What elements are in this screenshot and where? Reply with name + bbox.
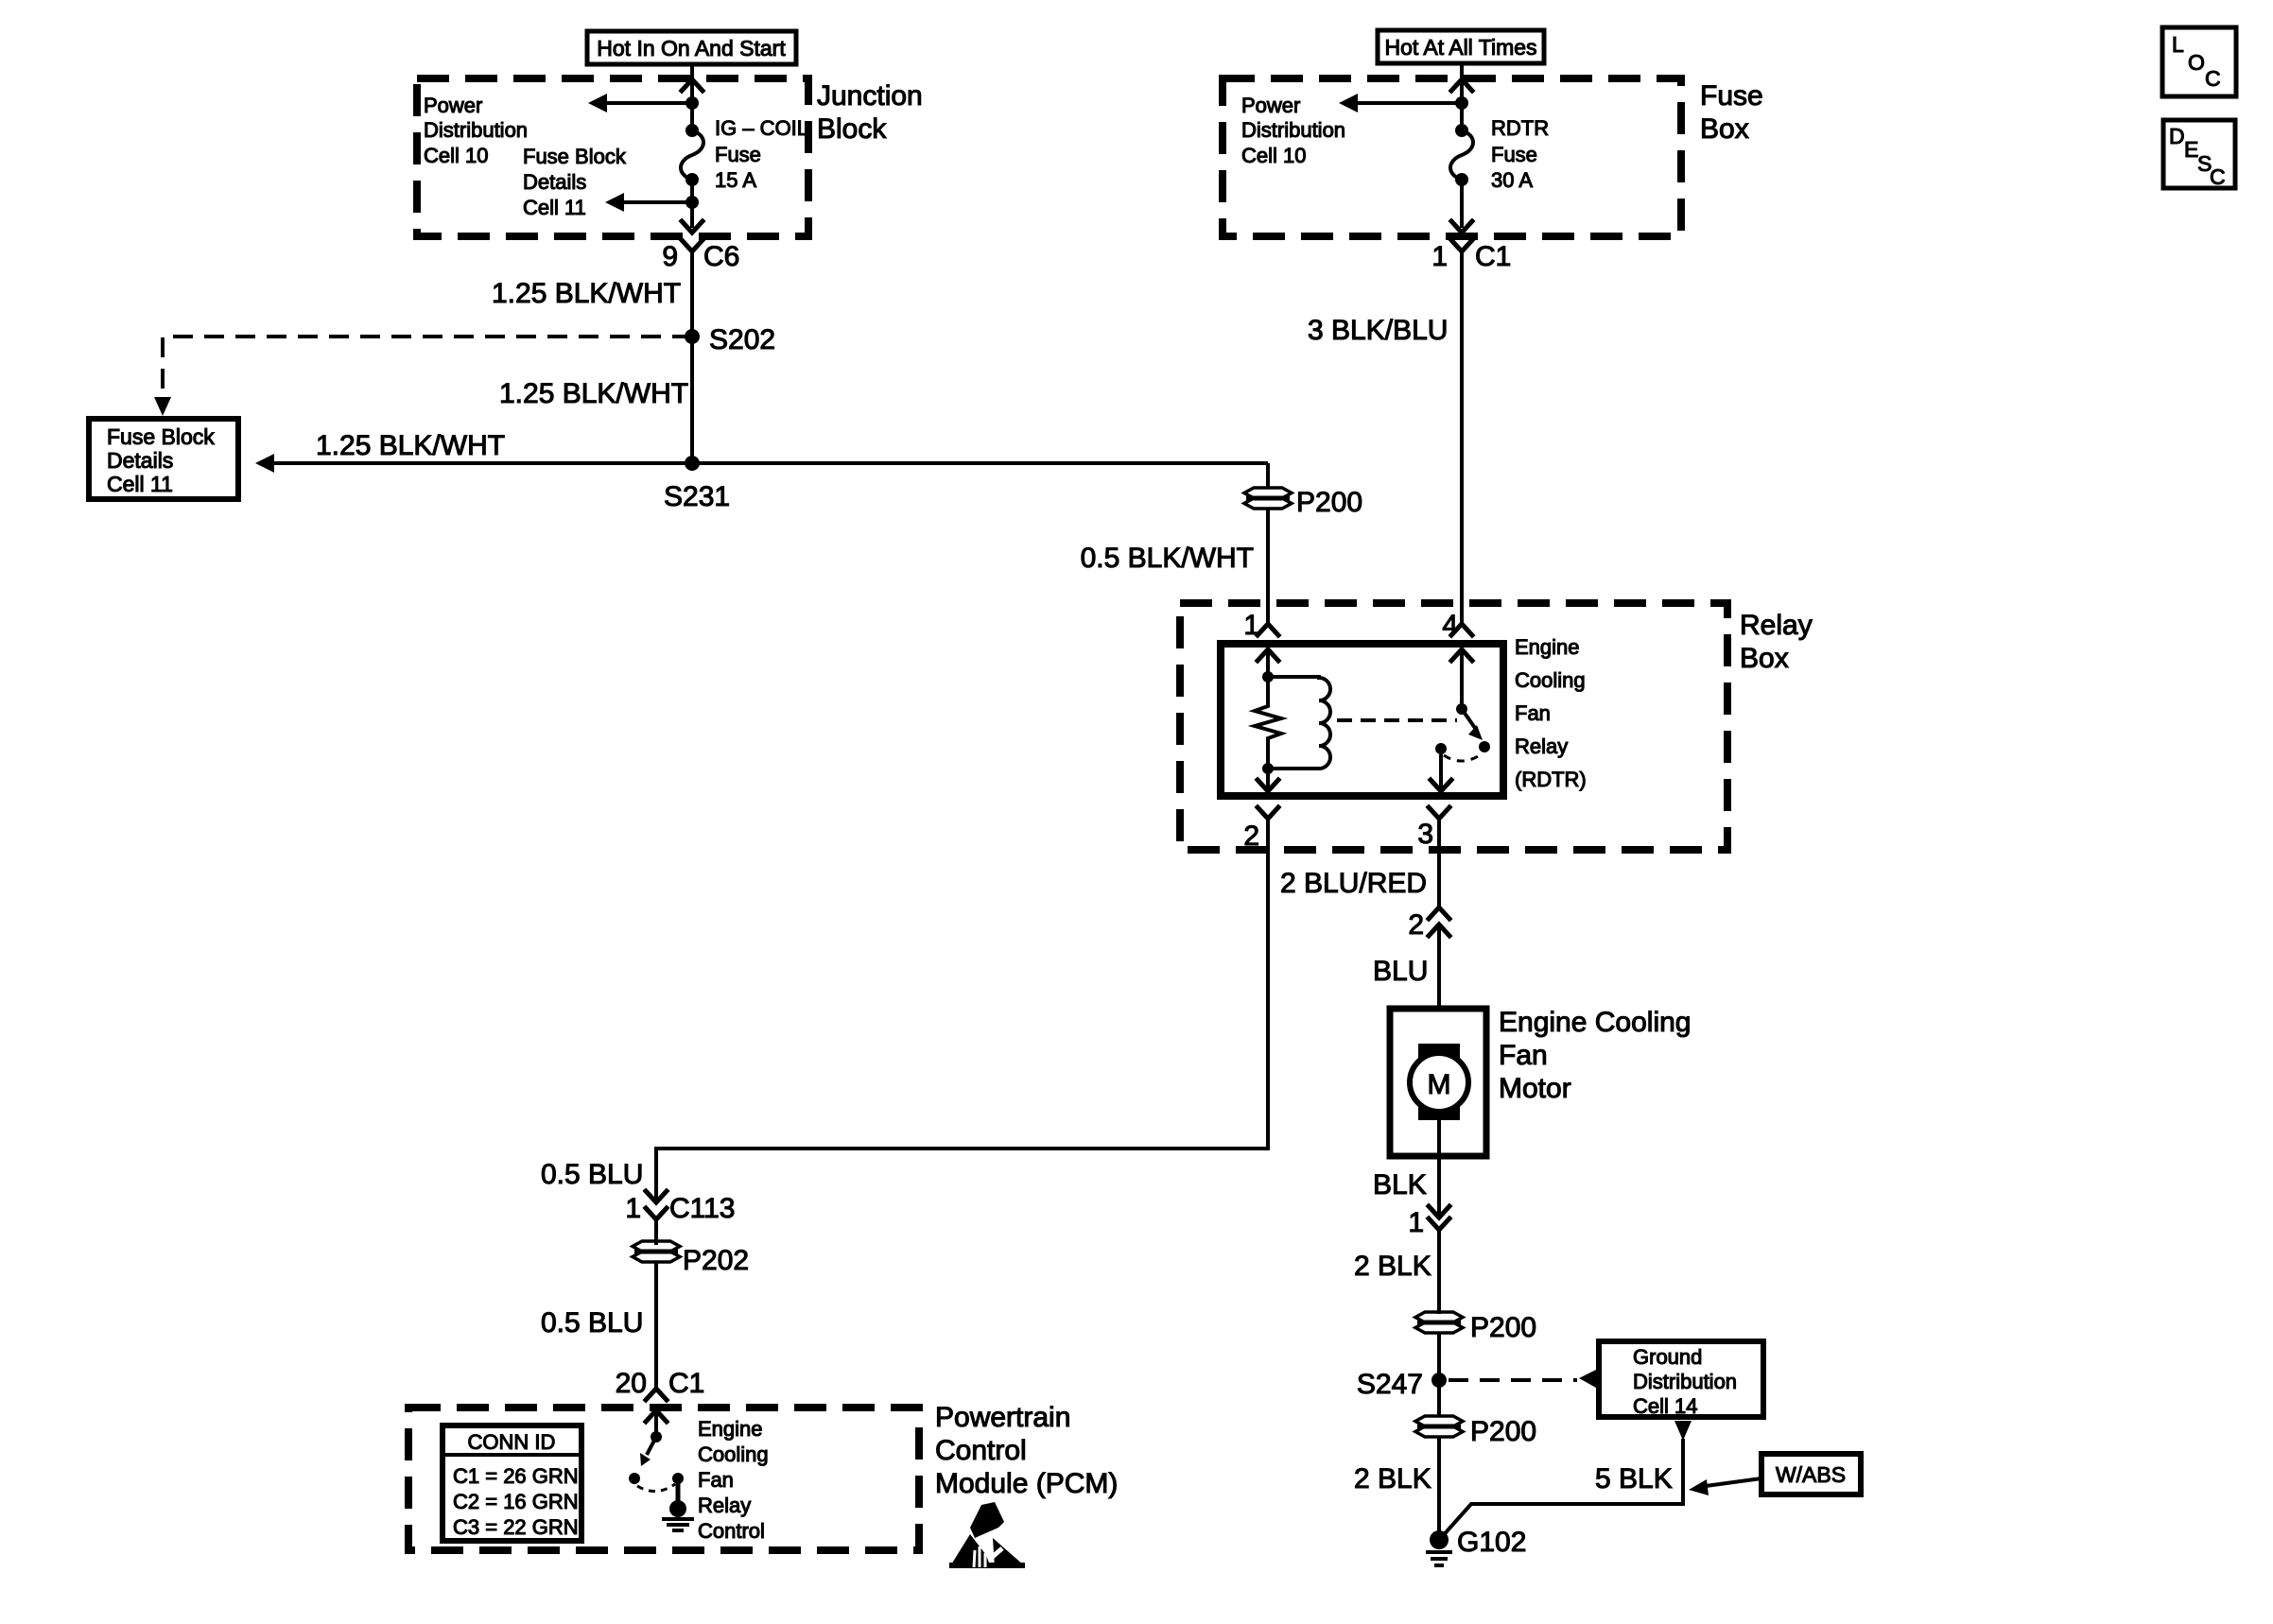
svg-text:C2 = 16 GRN: C2 = 16 GRN	[453, 1490, 579, 1513]
svg-text:Box: Box	[1740, 643, 1789, 674]
svg-text:Cooling: Cooling	[698, 1443, 769, 1466]
svg-text:Cell 14: Cell 14	[1633, 1394, 1697, 1418]
engine cooling fan motor	[1390, 1009, 1486, 1156]
label Power Distribution Cell 10 (junction)	[424, 94, 528, 167]
wire C113 to P202	[654, 1219, 658, 1245]
svg-text:C6: C6	[703, 241, 739, 272]
svg-text:Fuse: Fuse	[1491, 143, 1537, 166]
svg-text:Hot In On And Start: Hot In On And Start	[597, 36, 786, 60]
svg-text:BLK: BLK	[1373, 1169, 1427, 1201]
svg-text:C: C	[2205, 66, 2221, 91]
svg-text:Relay: Relay	[698, 1494, 751, 1517]
label IG-COIL Fuse 15 A	[715, 116, 808, 192]
svg-text:0.5 BLU: 0.5 BLU	[541, 1159, 643, 1190]
svg-text:Cell 11: Cell 11	[107, 472, 173, 496]
svg-text:C: C	[2210, 164, 2226, 189]
wire arrow to Power Distribution	[605, 101, 692, 105]
switch thrown contact	[1479, 741, 1490, 752]
LOC box	[2162, 27, 2236, 96]
svg-text:C1 = 26 GRN: C1 = 26 GRN	[453, 1464, 579, 1488]
svg-text:(RDTR): (RDTR)	[1515, 768, 1587, 791]
CONN ID table	[442, 1425, 581, 1541]
wire P200 to relay pin 1	[1266, 508, 1270, 624]
svg-text:2: 2	[1243, 821, 1259, 852]
svg-text:Fuse Block: Fuse Block	[523, 145, 627, 168]
svg-text:9: 9	[662, 241, 678, 272]
svg-text:Block: Block	[817, 113, 887, 145]
wire contact to pin 3 arrow down	[1439, 754, 1443, 791]
svg-text:Details: Details	[107, 448, 173, 473]
dashed wire S247 to Ground Distribution	[1449, 1378, 1577, 1382]
PCM dashed box	[408, 1408, 919, 1550]
wire to P200 lower	[1437, 1230, 1441, 1314]
svg-text:Distribution: Distribution	[1633, 1370, 1737, 1393]
node junction dot 2	[685, 196, 699, 209]
ESD symbol	[949, 1502, 1025, 1568]
svg-text:Engine: Engine	[1515, 635, 1580, 659]
dashed wire S202 to Fuse Block Details	[163, 337, 692, 401]
svg-text:Cell 10: Cell 10	[424, 144, 488, 167]
svg-text:2 BLU/RED: 2 BLU/RED	[1280, 868, 1427, 899]
svg-text:Fuse Block: Fuse Block	[107, 424, 215, 449]
svg-text:Box: Box	[1700, 113, 1749, 145]
wire fuse to exit	[690, 180, 694, 228]
svg-text:M: M	[1428, 1069, 1451, 1100]
engine cooling fan relay outline	[1221, 644, 1503, 796]
PCM internal ground	[662, 1478, 694, 1530]
svg-text:3: 3	[1417, 819, 1433, 850]
svg-text:2 BLK: 2 BLK	[1354, 1251, 1431, 1282]
wire down to P200	[1266, 463, 1270, 488]
pin 2 fork	[1258, 807, 1278, 819]
DESC box	[2163, 120, 2235, 189]
svg-text:P200: P200	[1470, 1416, 1536, 1447]
switch pivot	[1456, 703, 1467, 715]
wire coil to pin 2 arrow down	[1266, 769, 1270, 791]
svg-text:C1: C1	[1475, 241, 1511, 272]
svg-text:Engine: Engine	[698, 1417, 763, 1441]
svg-text:1: 1	[625, 1193, 641, 1224]
wire junction feed	[690, 64, 694, 130]
svg-text:RDTR: RDTR	[1491, 116, 1549, 140]
label RDTR Fuse 30 A	[1491, 116, 1549, 192]
svg-text:3 BLK/BLU: 3 BLK/BLU	[1308, 315, 1448, 346]
svg-text:1.25 BLK/WHT: 1.25 BLK/WHT	[499, 378, 688, 409]
label Engine Cooling Fan Relay (RDTR)	[1515, 635, 1587, 791]
svg-text:P200: P200	[1470, 1312, 1536, 1343]
node Hot At All Times	[1378, 30, 1544, 63]
label Powertrain Control Module (PCM)	[935, 1402, 1118, 1499]
arrow down exit fuse box	[1451, 221, 1472, 233]
svg-text:Relay: Relay	[1740, 610, 1813, 641]
svg-text:Cell 11: Cell 11	[523, 196, 586, 219]
node G102 ground	[1426, 1527, 1526, 1565]
label Fuse Block Details Cell 11 (junction)	[523, 145, 627, 219]
arrow down from Ground Distribution	[1674, 1421, 1692, 1441]
arrow down exit junction block	[682, 221, 703, 233]
PCM switch blade	[647, 1437, 656, 1455]
switch feed arrow up (pin 4)	[1451, 649, 1472, 661]
svg-text:Power: Power	[424, 94, 482, 117]
wire motor to connector 1	[1437, 1119, 1441, 1218]
switch stationary contact	[1435, 743, 1447, 754]
pin 3 fork	[1429, 807, 1449, 819]
svg-text:2 BLK: 2 BLK	[1354, 1463, 1431, 1494]
svg-text:Relay: Relay	[1515, 734, 1568, 758]
wire P200 to S247	[1437, 1332, 1441, 1416]
svg-text:Control: Control	[935, 1435, 1027, 1466]
wire relay pin 3 down	[1437, 819, 1441, 907]
wire C1 to relay pin 4	[1460, 251, 1464, 624]
node Ground Distribution Cell 14 box	[1599, 1341, 1763, 1418]
label Fuse Box	[1700, 80, 1763, 145]
connector P200 (upper)	[1244, 487, 1362, 518]
node junction dot	[685, 96, 699, 110]
svg-text:Fan: Fan	[1499, 1040, 1548, 1071]
pin 1 fork	[1258, 624, 1278, 635]
node S202	[685, 329, 700, 344]
connector C113	[625, 1191, 735, 1224]
svg-text:Cell 10: Cell 10	[1241, 144, 1306, 167]
svg-text:0.5 BLU: 0.5 BLU	[541, 1307, 643, 1339]
svg-text:W/ABS: W/ABS	[1776, 1462, 1846, 1487]
arrow up into Hot At All Times	[1451, 79, 1472, 91]
connector C1 pin 20 fork	[646, 1389, 667, 1400]
inline connector 1 (arrow down + fork up)	[1408, 1206, 1449, 1238]
svg-text:G102: G102	[1457, 1527, 1526, 1558]
svg-text:Cooling: Cooling	[1515, 668, 1586, 692]
pin 4 fork	[1451, 624, 1472, 635]
svg-text:P200: P200	[1296, 487, 1362, 518]
fuse RDTR 30A	[1450, 124, 1473, 186]
label Power Distribution Cell 10 (fuse box)	[1241, 94, 1345, 167]
arrow up into Hot In On And Start	[682, 79, 703, 91]
svg-text:Distribution: Distribution	[424, 118, 528, 142]
dashed actuation link	[1337, 718, 1457, 722]
svg-text:1: 1	[1431, 241, 1448, 272]
svg-text:Engine Cooling: Engine Cooling	[1499, 1007, 1691, 1038]
connector C1 pin 1 fork	[1451, 240, 1472, 251]
wire fuse box feed	[1460, 64, 1464, 130]
svg-text:0.5 BLK/WHT: 0.5 BLK/WHT	[1081, 543, 1254, 574]
connector P200 (lower)	[1415, 1416, 1536, 1447]
svg-text:S247: S247	[1357, 1369, 1423, 1400]
node Hot In On And Start	[587, 31, 796, 64]
svg-text:C113: C113	[669, 1193, 736, 1224]
svg-text:Motor: Motor	[1499, 1073, 1571, 1104]
svg-text:Fan: Fan	[698, 1468, 734, 1492]
node Fuse Block Details Cell 11 box	[89, 419, 238, 499]
svg-text:1.25 BLK/WHT: 1.25 BLK/WHT	[492, 278, 681, 309]
fuse box dashed box	[1223, 78, 1681, 236]
svg-text:Ground: Ground	[1633, 1345, 1702, 1369]
inline connector 2 (fork down + arrow up)	[1408, 907, 1449, 941]
junction block dashed box	[417, 78, 808, 236]
svg-text:D: D	[2169, 124, 2185, 148]
node S231	[685, 456, 700, 471]
svg-text:Fuse: Fuse	[715, 143, 761, 166]
label Engine Cooling Fan Motor	[1499, 1007, 1691, 1104]
wire arrow to Power Distribution (fuse box)	[1356, 101, 1462, 105]
coil (relay)	[1268, 677, 1330, 769]
svg-text:IG – COIL: IG – COIL	[715, 116, 808, 140]
svg-text:1.25 BLK/WHT: 1.25 BLK/WHT	[316, 430, 505, 461]
svg-text:O: O	[2188, 50, 2205, 75]
svg-text:C1: C1	[668, 1368, 704, 1399]
svg-text:Power: Power	[1241, 94, 1300, 117]
fuse IG-COIL 15A	[681, 124, 703, 186]
wire relay pin 2 to PCM corner	[656, 819, 1268, 1202]
svg-text:P202: P202	[683, 1245, 749, 1276]
svg-text:Hot At All Times: Hot At All Times	[1384, 35, 1536, 60]
svg-text:30 A: 30 A	[1491, 168, 1533, 192]
svg-text:15 A: 15 A	[715, 168, 756, 192]
wire S247 branch to G102	[1437, 1436, 1441, 1540]
wire 5 BLK	[1440, 1439, 1683, 1539]
resistor (relay)	[1255, 677, 1281, 769]
label Relay Box	[1740, 610, 1813, 674]
svg-text:Fuse: Fuse	[1700, 80, 1763, 112]
node S247	[1431, 1373, 1447, 1388]
relay box dashed box	[1180, 603, 1727, 850]
svg-text:C3 = 22 GRN: C3 = 22 GRN	[453, 1515, 579, 1539]
PCM internal switch arrow up	[646, 1410, 667, 1422]
wire arrow to Fuse Block Details Cell 11	[622, 200, 692, 204]
svg-text:1: 1	[1243, 610, 1259, 641]
svg-text:2: 2	[1408, 909, 1424, 941]
svg-text:BLU: BLU	[1373, 956, 1428, 987]
label Engine Cooling Fan Relay Control	[698, 1417, 769, 1543]
svg-text:5 BLK: 5 BLK	[1595, 1463, 1673, 1494]
svg-text:Junction: Junction	[817, 80, 923, 112]
svg-text:S202: S202	[709, 324, 775, 355]
connector P202	[633, 1241, 749, 1276]
PCM switch contacts	[629, 1473, 640, 1484]
svg-text:20: 20	[616, 1368, 647, 1399]
svg-text:Fan: Fan	[1515, 701, 1551, 725]
svg-text:Control: Control	[698, 1519, 765, 1543]
svg-text:4: 4	[1442, 610, 1458, 641]
wire fuse to exit (fuse box)	[1460, 180, 1464, 228]
node junction dot (fuse box)	[1455, 96, 1468, 110]
svg-text:Distribution: Distribution	[1241, 118, 1345, 142]
svg-text:CONN ID: CONN ID	[468, 1430, 556, 1454]
wire to motor	[1437, 924, 1441, 1044]
svg-text:Module (PCM): Module (PCM)	[935, 1468, 1118, 1499]
node W/ABS box	[1761, 1454, 1861, 1494]
svg-text:Details: Details	[523, 170, 586, 194]
dashed throw arc	[1444, 753, 1483, 761]
svg-text:L: L	[2172, 32, 2184, 57]
connector C6 pin 9 fork	[682, 240, 703, 251]
relay coil feed arrow up	[1258, 649, 1278, 661]
wire W/ABS arrow	[1706, 1478, 1761, 1486]
label Junction Block	[817, 80, 923, 145]
svg-text:1: 1	[1408, 1207, 1424, 1238]
svg-text:Powertrain: Powertrain	[935, 1402, 1070, 1433]
wire S231 horizontal run	[274, 461, 1268, 465]
connector P200 (middle)	[1415, 1312, 1536, 1343]
wire C6 to S202	[690, 251, 694, 463]
svg-text:S231: S231	[664, 481, 730, 512]
switch blade	[1462, 709, 1477, 731]
wire P202 to PCM pin 20	[654, 1263, 658, 1389]
